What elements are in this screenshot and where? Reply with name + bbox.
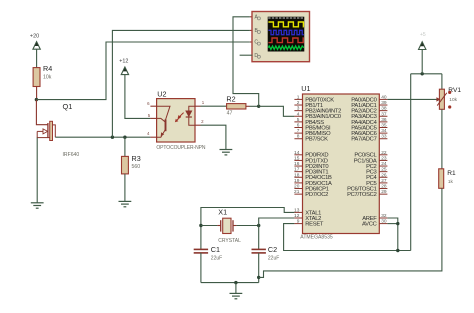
U1 pin 18 PD4/OC1B — [294, 172, 332, 181]
svg-text:+20: +20 — [30, 34, 39, 40]
svg-text:30: 30 — [381, 219, 387, 225]
U1 pin 20 PD6/ICP1 — [294, 184, 329, 193]
wire Q1 drain rail — [55, 136, 150, 138]
svg-text:47: 47 — [227, 110, 233, 116]
U1 pin 13 XTAL1 — [294, 207, 321, 216]
U1 pin 40 PA0/ADC0 — [351, 94, 387, 103]
wire RV1 top — [441, 74, 443, 89]
svg-text:2: 2 — [297, 100, 300, 106]
U1 pin 27 PC5 — [366, 178, 387, 187]
crystal X1 — [217, 218, 236, 233]
U1 pin 32 AREF — [362, 213, 387, 222]
screen top highlight — [268, 17, 304, 19]
svg-text:R2: R2 — [226, 94, 235, 103]
capacitor C1 — [194, 249, 208, 253]
scope input D — [254, 53, 260, 59]
U2 internal phototransistor — [157, 106, 170, 137]
svg-text:22uF: 22uF — [268, 255, 279, 261]
wire C2 to ground rail — [258, 253, 260, 283]
svg-text:34: 34 — [381, 128, 387, 134]
wire ground stub — [235, 283, 237, 294]
svg-text:22: 22 — [381, 150, 387, 156]
wire opto pin2 to ground — [201, 125, 226, 149]
scope input B — [255, 28, 261, 34]
svg-text:27: 27 — [381, 178, 387, 184]
svg-text:19: 19 — [294, 178, 300, 184]
wire XTAL1 to crystal net — [201, 208, 295, 250]
wire +20 to R4 — [36, 49, 38, 67]
U1 pin 38 PA2/ADC2 — [351, 106, 387, 115]
scope trace C red — [268, 38, 303, 43]
U1 pin 1 PB0/T0XCK — [294, 94, 334, 103]
wire drain node to scope B — [112, 30, 250, 137]
U1 pin 36 PA4/ADC4 — [351, 117, 387, 126]
svg-text:28: 28 — [381, 184, 387, 190]
junction +V rail — [396, 249, 399, 252]
U1 pin 17 PD3/INT1 — [294, 167, 328, 176]
junction AVCC — [396, 222, 399, 225]
wire AVCC join — [387, 223, 397, 225]
U1 pin 26 PC4 — [366, 172, 387, 181]
U1 pin 3 PB2/AIN0/INT2 — [294, 106, 341, 115]
svg-text:8: 8 — [297, 134, 300, 140]
U2 light arrows — [175, 113, 184, 123]
svg-text:RESET: RESET — [305, 222, 324, 228]
U2 internal LED — [186, 106, 195, 125]
U1 pin 37 PA3/ADC3 — [351, 111, 387, 120]
U1 pin 2 PB1/T1 — [294, 100, 323, 109]
svg-text:U1: U1 — [301, 84, 310, 93]
svg-text:16: 16 — [294, 161, 300, 167]
junction drain / R3 — [123, 136, 126, 139]
svg-text:OPTOCOUPLER-NPN: OPTOCOUPLER-NPN — [156, 145, 205, 151]
svg-text:4: 4 — [297, 111, 300, 117]
resistor R3 — [122, 156, 129, 174]
scope trace D green — [268, 46, 303, 49]
svg-text:C2: C2 — [268, 245, 277, 254]
scope input C — [254, 40, 260, 46]
svg-text:39: 39 — [381, 100, 387, 106]
wire node A to U1 pin4 — [259, 106, 295, 116]
ground under Q1 — [31, 203, 44, 208]
svg-text:AVCC: AVCC — [362, 222, 377, 228]
svg-text:5: 5 — [148, 113, 151, 118]
wire node A to scope A — [233, 17, 259, 107]
svg-text:38: 38 — [381, 106, 387, 112]
U1 pin 24 PC2 — [366, 161, 387, 170]
capacitor C2 — [252, 249, 266, 253]
U1 pin 9 RESET — [294, 219, 323, 228]
scope trace A yellow — [268, 22, 303, 27]
svg-text:37: 37 — [381, 111, 387, 117]
svg-text:32: 32 — [381, 213, 387, 219]
svg-text:CRYSTAL: CRYSTAL — [218, 238, 241, 244]
svg-text:1k: 1k — [448, 179, 454, 185]
scope D stub wire — [240, 54, 253, 56]
scope trace B blue — [268, 30, 303, 34]
svg-text:7: 7 — [297, 128, 300, 134]
scope input A — [255, 14, 261, 20]
transistor Q1 MOSFET — [37, 121, 55, 140]
svg-text:1: 1 — [297, 94, 300, 100]
U1 pin 14 PD0/RXD — [294, 150, 328, 159]
svg-text:4: 4 — [147, 131, 150, 136]
node +20 power terminal — [30, 34, 40, 50]
resistor R1 — [439, 169, 444, 189]
wire XTAL2 to crystal net — [259, 218, 295, 249]
U1 pin 6 PB5/MOSI — [294, 123, 331, 132]
svg-text:33: 33 — [381, 134, 387, 140]
MCU U1 box — [303, 94, 380, 234]
svg-text:13: 13 — [294, 207, 300, 213]
svg-text:PD7/OC2: PD7/OC2 — [305, 192, 328, 198]
svg-text:X1: X1 — [218, 208, 227, 217]
wire C1 to ground rail — [200, 253, 202, 283]
scope C pin stub — [250, 41, 253, 43]
junction crystal right — [257, 224, 260, 227]
U1 pin 34 PA6/ADC6 — [351, 128, 387, 137]
svg-text:10k: 10k — [449, 97, 457, 103]
junction gate node — [35, 98, 38, 101]
U1 pin 4 PB3/AIN1/OC0 — [294, 111, 340, 120]
wire power arrow down — [421, 50, 423, 74]
U1 pin 15 PD1/TXD — [294, 155, 328, 164]
oscilloscope body — [252, 12, 310, 62]
svg-text:23: 23 — [381, 155, 387, 161]
junction node A — [257, 105, 260, 108]
wire +12 to opto pin5 — [125, 75, 150, 119]
svg-text:Q1: Q1 — [63, 102, 73, 111]
RV1 terminal dot bottom — [448, 105, 451, 108]
U1 pin 29 PC7/TOSC2 — [347, 189, 387, 198]
wire AREF down — [387, 218, 397, 251]
wire PA0 to RV1 wiper — [387, 98, 437, 100]
wire crystal left — [201, 225, 218, 227]
U1 pin 25 PC3 — [366, 167, 387, 176]
junction ground rail — [234, 281, 237, 284]
svg-text:3: 3 — [297, 106, 300, 112]
U1 pin 35 PA5/ADC5 — [351, 123, 387, 132]
svg-text:R3: R3 — [132, 154, 141, 163]
RV1 terminal dot top — [448, 91, 451, 94]
junction top power — [421, 72, 424, 75]
svg-text:36: 36 — [381, 117, 387, 123]
wire gate node down to Q1 gate — [36, 100, 47, 125]
svg-text:ATMEGA8535: ATMEGA8535 — [300, 235, 333, 241]
svg-text:25: 25 — [381, 167, 387, 173]
U1 pin 5 PB4/SS — [294, 117, 324, 126]
U1 pin 30 AVCC — [362, 219, 387, 228]
optocoupler U2 — [157, 99, 195, 142]
junction R1 net on C2 wire — [257, 276, 260, 279]
svg-text:14: 14 — [294, 150, 300, 156]
ground bottom symbol — [230, 293, 243, 298]
svg-text:15: 15 — [294, 155, 300, 161]
wire RESET to +V rail — [284, 224, 411, 251]
svg-text:35: 35 — [381, 123, 387, 129]
wire gate node to scope C — [36, 42, 250, 100]
oscilloscope screen — [268, 17, 305, 52]
wire opto pin1 to R2 — [201, 105, 227, 107]
U2 pin 6 stub — [147, 101, 156, 106]
U1 pin 8 PB7/SCK — [294, 134, 328, 143]
wire +V vertical — [410, 74, 412, 251]
U1 pin 21 PD7/OC2 — [294, 189, 328, 198]
U1 pin 23 PC1/SDA — [354, 155, 388, 164]
ground under R3 — [119, 201, 132, 206]
svg-text:PC7/TOSC2: PC7/TOSC2 — [347, 192, 376, 198]
wire crystal right — [236, 225, 258, 227]
svg-text:21: 21 — [294, 189, 300, 195]
power terminal top right — [419, 32, 426, 50]
svg-text:U2: U2 — [157, 90, 166, 99]
svg-text:9: 9 — [297, 219, 300, 225]
svg-text:12: 12 — [294, 213, 300, 219]
wire R1 to ground net — [259, 188, 442, 277]
U2 pin 1 stub — [195, 100, 205, 106]
svg-text:26: 26 — [381, 172, 387, 178]
svg-text:+12: +12 — [119, 59, 128, 65]
U2 pin 2 stub — [195, 119, 204, 125]
U1 pin 12 XTAL2 — [294, 213, 321, 222]
svg-text:29: 29 — [381, 189, 387, 195]
scope B pin stub — [250, 29, 253, 31]
wire R3 to ground — [124, 174, 126, 201]
U2 pin 4 stub — [147, 131, 157, 137]
ground rail wire — [201, 282, 259, 284]
svg-text:R1: R1 — [447, 170, 456, 177]
ground under opto — [220, 150, 233, 155]
svg-text:IRF640: IRF640 — [63, 152, 80, 158]
U1 pin 19 PD5/OC1A — [294, 178, 332, 187]
U1 pin 28 PC6/TOSC1 — [347, 184, 387, 193]
U1 pin 7 PB6/MISO — [294, 128, 331, 137]
junction drain / scope B — [111, 136, 114, 139]
svg-text:17: 17 — [294, 167, 300, 173]
svg-text:40: 40 — [381, 94, 387, 100]
junction crystal left — [199, 224, 202, 227]
svg-text:22uF: 22uF — [211, 255, 222, 261]
svg-text:560: 560 — [132, 164, 141, 170]
wire Q1 source to ground — [36, 138, 38, 203]
svg-text:R4: R4 — [43, 64, 52, 73]
resistor R4 — [33, 68, 40, 100]
node +12 power terminal — [119, 59, 128, 75]
svg-text:6: 6 — [297, 123, 300, 129]
wire drain node to R3 — [124, 137, 126, 156]
svg-text:24: 24 — [381, 161, 387, 167]
wire +V top rail — [411, 73, 442, 75]
svg-text:6: 6 — [147, 101, 150, 106]
resistor R2 — [227, 104, 250, 109]
svg-text:C1: C1 — [211, 245, 220, 254]
potentiometer RV1 — [436, 89, 446, 109]
svg-text:+5: +5 — [420, 32, 426, 38]
U2 pin 5 stub — [148, 113, 157, 118]
U1 pin 16 PD2/INT0 — [294, 161, 328, 170]
U1 pin 39 PA1/ADC1 — [351, 100, 387, 109]
svg-text:20: 20 — [294, 184, 300, 190]
U1 pin 33 PA7/ADC7 — [351, 134, 387, 143]
svg-text:PB7/SCK: PB7/SCK — [305, 137, 328, 143]
svg-text:5: 5 — [297, 117, 300, 123]
U1 pin 22 PC0/SCL — [354, 150, 387, 159]
wire RV1 to R1 — [441, 109, 443, 169]
svg-text:PA7/ADC7: PA7/ADC7 — [351, 137, 376, 143]
svg-text:2: 2 — [201, 119, 204, 124]
svg-text:18: 18 — [294, 172, 300, 178]
svg-text:1: 1 — [202, 100, 205, 105]
wire R2 to node A — [250, 105, 259, 107]
scope A pin stub — [250, 16, 253, 18]
svg-text:10k: 10k — [43, 74, 52, 80]
